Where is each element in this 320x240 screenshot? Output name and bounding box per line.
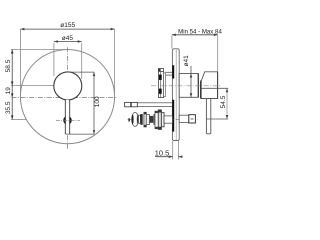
svg-text:10.5: 10.5 — [155, 148, 169, 157]
svg-text:19: 19 — [5, 87, 12, 95]
svg-text:ø155: ø155 — [60, 22, 75, 29]
svg-text:100: 100 — [94, 96, 101, 107]
svg-text:54.5: 54.5 — [220, 95, 227, 108]
svg-text:Min 54 - Max 84: Min 54 - Max 84 — [178, 29, 222, 36]
svg-text:35.5: 35.5 — [5, 101, 12, 114]
svg-text:58.5: 58.5 — [5, 59, 12, 72]
svg-text:ø41: ø41 — [183, 55, 190, 67]
svg-text:ø45: ø45 — [62, 35, 74, 42]
